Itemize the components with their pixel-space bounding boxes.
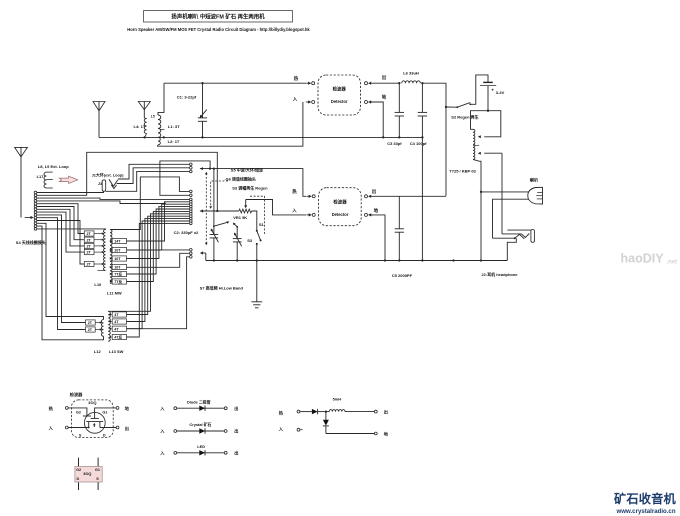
svg-text:7T反: 7T反 <box>114 272 122 277</box>
junction L1L2-bus1 <box>163 136 165 138</box>
svg-text:J2:耳机 headphone: J2:耳机 headphone <box>481 271 518 277</box>
legend 5mH gnd wire <box>326 433 374 435</box>
arrow into detector2 out <box>371 195 373 197</box>
wire VR1 to S1 contact <box>252 211 257 231</box>
wire battery to node <box>487 86 489 111</box>
legend 5mH node <box>325 410 327 412</box>
legend 5mH out terminal <box>374 410 377 413</box>
L1 mid tick <box>160 129 164 131</box>
junction C3 bottom <box>398 136 400 138</box>
staircase tap wires to selector <box>127 202 190 241</box>
wire S4-5 to L10 tap1 <box>37 204 84 234</box>
terminal group ext-loop select <box>190 163 193 166</box>
svg-text:出: 出 <box>234 428 238 435</box>
svg-text:4T: 4T <box>114 320 119 324</box>
coil L2 1T <box>158 137 160 144</box>
wire L2 to detector1 In <box>157 102 303 146</box>
svg-text:G1: G1 <box>95 468 100 472</box>
svg-text:Detector: Detector <box>331 99 348 104</box>
coil L1 3T <box>158 115 161 137</box>
hot bus to detector1 <box>164 82 306 84</box>
junction bus2 varcap1 <box>213 259 215 261</box>
svg-text:S: S <box>79 434 82 438</box>
dashed gang link B <box>211 181 228 207</box>
svg-text:Diode 二极管: Diode 二极管 <box>187 399 211 404</box>
legend mosfet terminal LB <box>65 426 68 429</box>
svg-text:出: 出 <box>234 449 238 456</box>
battery B1 3-4V <box>483 81 493 83</box>
svg-text:矿石收音机: 矿石收音机 <box>614 491 677 506</box>
svg-text:4T: 4T <box>114 313 119 317</box>
svg-text:LED: LED <box>197 444 205 449</box>
terminal group SW select <box>190 249 193 252</box>
capacitor C5 2000PF <box>398 196 400 229</box>
svg-text:地: 地 <box>382 94 387 101</box>
wire select m1 <box>110 177 189 230</box>
terminal block S4 <box>34 191 37 194</box>
wire to S2 <box>446 106 457 108</box>
svg-text:S: S <box>96 477 99 481</box>
svg-text:C2: 330pF x2: C2: 330pF x2 <box>174 230 199 235</box>
horn speaker <box>528 187 543 204</box>
detector2 box <box>319 188 362 226</box>
arrow from ANT1 into S4 terminals <box>25 217 31 219</box>
svg-text:-S6 调谐线圈抽头: -S6 调谐线圈抽头 <box>225 175 256 181</box>
varcap C2b <box>236 227 238 239</box>
legend mosfet dashed box <box>72 400 114 438</box>
svg-text:3OQ: 3OQ <box>83 471 91 476</box>
Q1 source wire <box>68 427 89 429</box>
svg-text:S3 调幅再生 Regen: S3 调幅再生 Regen <box>232 185 268 191</box>
coil L12 <box>101 320 103 337</box>
wire S4-1 to J1 sleeve <box>37 191 104 192</box>
bus2 left riser and arrow <box>205 253 207 261</box>
svg-text:入: 入 <box>292 97 298 103</box>
L12 tap boxes 2T <box>86 320 96 325</box>
svg-text:入: 入 <box>159 450 165 455</box>
svg-text:.net: .net <box>667 260 678 266</box>
package pinout pins top <box>78 458 80 467</box>
pink block arrow <box>59 176 78 183</box>
svg-text:L6 33uH: L6 33uH <box>403 70 419 75</box>
svg-text:地: 地 <box>374 207 379 214</box>
wire S4-9 to L12 tap1 <box>37 215 86 323</box>
junction winding bottom bus2 <box>480 259 482 261</box>
ground bus1 <box>99 136 422 138</box>
svg-text:D: D <box>77 477 80 481</box>
junction bus2 S3 <box>256 259 258 261</box>
transistor Q1 circle <box>84 412 105 433</box>
junction L6 right <box>421 82 423 84</box>
jack J2 sleeve line <box>507 229 531 231</box>
arrow into detector1 hot <box>306 82 308 84</box>
svg-text:2T: 2T <box>88 328 93 332</box>
wire detector2 gnd to bus2 <box>371 215 386 261</box>
package pinout box 3OQ <box>75 467 102 483</box>
svg-text:+: + <box>491 87 494 92</box>
legend mosfet terminal LT <box>65 407 68 410</box>
wire S4-7 to L10 tap3 <box>37 209 84 246</box>
svg-text:haoDIY: haoDIY <box>621 252 665 266</box>
svg-text:出: 出 <box>382 74 387 81</box>
L1 top wire to hot bus <box>158 83 164 115</box>
switch S3 bottom contact <box>256 243 258 245</box>
capacitor C4 100pf <box>421 83 423 112</box>
svg-text:热: 热 <box>292 188 297 195</box>
coil L11 <box>110 230 112 284</box>
wire to speaker bottom <box>493 199 529 238</box>
svg-text:喇叭: 喇叭 <box>530 176 539 183</box>
svg-text:3-4V: 3-4V <box>496 90 505 95</box>
svg-text:3OQ: 3OQ <box>88 400 96 405</box>
wire transformer tap2 down to jack <box>501 153 503 234</box>
svg-text:S4 天线线圈接头: S4 天线线圈接头 <box>16 239 46 245</box>
terminal detector1 gnd <box>365 101 368 104</box>
svg-text:D: D <box>103 434 106 438</box>
svg-text:S2 Regen 再生: S2 Regen 再生 <box>451 114 478 120</box>
Q1 G1 feed <box>95 408 117 419</box>
svg-text:地: 地 <box>125 405 130 412</box>
svg-text:G2: G2 <box>76 410 81 414</box>
junction L4-bus1 <box>143 136 145 138</box>
svg-text:L10: L10 <box>94 282 102 287</box>
legend 5mH shunt diode <box>325 412 327 420</box>
wire to speaker top <box>481 191 529 193</box>
junction bus2 varcap2 <box>236 259 238 261</box>
Q1 substrate arrow <box>93 425 95 427</box>
svg-text:热: 热 <box>279 410 284 417</box>
terminal group coil-tap select <box>190 190 193 193</box>
svg-text:出: 出 <box>125 425 129 432</box>
package pinout pins bottom <box>78 482 80 490</box>
wire S4-4 join <box>37 201 165 204</box>
jack J1 wire B to loop terminal <box>117 168 190 184</box>
svg-text:扬声机喇叭 中短波FM 矿石 再生两用机: 扬声机喇叭 中短波FM 矿石 再生两用机 <box>171 13 265 21</box>
S5 common wire to detector2 hot <box>200 169 306 197</box>
VR1 wiper arrow <box>245 200 247 207</box>
ground bus2 <box>206 260 508 262</box>
svg-text:L5: L5 <box>151 114 155 118</box>
svg-text:2T: 2T <box>87 245 92 249</box>
svg-text:L8, L9 Ext. Loop: L8, L9 Ext. Loop <box>38 164 69 169</box>
legend 5mH hot terminal <box>297 410 300 413</box>
arrow into transformer tap1 <box>478 135 481 138</box>
legend 5mH gnd terminal <box>374 432 377 435</box>
junction C4 bottom <box>421 136 423 138</box>
jack J2 tip contact <box>502 233 522 235</box>
transformer T725 winding <box>473 129 475 159</box>
L11 tap boxes <box>112 238 126 243</box>
jack J2 ring contact with leaf <box>493 237 515 239</box>
wire select b1 from L11 10T <box>127 249 190 251</box>
junction gnd1-bus1 <box>382 136 384 138</box>
legend 5mH series diode <box>300 411 312 413</box>
svg-text:Crystal 矿石: Crystal 矿石 <box>189 422 211 427</box>
wire S3 to ground <box>256 261 258 302</box>
wire select m3 from S4 <box>37 198 189 199</box>
wire S4-12 to L12 top <box>37 223 104 319</box>
junction bus2 C4ext <box>421 259 423 261</box>
svg-text:热: 热 <box>294 75 299 82</box>
svg-text:检波器: 检波器 <box>333 86 347 93</box>
svg-text:7T反: 7T反 <box>114 279 122 284</box>
svg-text:出: 出 <box>372 188 377 195</box>
switch S7 blade a <box>213 225 215 227</box>
junction C1 top <box>201 82 203 84</box>
dashed link S1 <box>250 196 265 234</box>
svg-text:C4 100pf: C4 100pf <box>410 141 427 146</box>
svg-text:VR1 5K: VR1 5K <box>233 215 247 220</box>
svg-text:S5 中波/大环/短波: S5 中波/大环/短波 <box>231 167 264 173</box>
arrow into detector1 out <box>371 82 373 84</box>
svg-text:L2: 1T: L2: 1T <box>168 139 180 144</box>
svg-text:G2: G2 <box>76 468 81 472</box>
wire detector2 out to right branch <box>373 195 446 197</box>
ground symbol <box>251 301 262 303</box>
coil L13 <box>108 311 110 341</box>
svg-text:10T: 10T <box>114 266 121 270</box>
wire winding bottom down <box>473 159 481 260</box>
junction S2 branch <box>445 106 447 108</box>
svg-text:2T: 2T <box>87 263 92 267</box>
terminal detector2 out <box>365 195 368 198</box>
arrow into detector2 gnd <box>371 214 373 216</box>
coil L4 1T <box>144 119 146 134</box>
wire select b3 from L13 <box>127 257 190 329</box>
dashed gang link A <box>205 173 207 243</box>
svg-text:L17: L17 <box>37 174 45 179</box>
terminal detector1 out <box>365 82 368 85</box>
svg-text:L1: 3T: L1: 3T <box>168 124 180 129</box>
wire battery node left to primary <box>471 111 489 130</box>
jack J2 lower step <box>507 238 516 260</box>
legend mosfet terminal RB <box>116 426 119 429</box>
Q1 channel <box>86 421 103 423</box>
junction bus2 gnd2 <box>384 259 386 261</box>
svg-text:4T反: 4T反 <box>114 335 122 340</box>
terminal detector1 hot <box>312 82 315 85</box>
wire detector1 out to L6 <box>373 82 399 84</box>
jack J1 sleeve body <box>102 180 106 191</box>
jack J1 wire A to loop terminal <box>118 164 190 179</box>
svg-text:2T: 2T <box>87 232 92 236</box>
wire wiper to detector2 in <box>246 200 307 215</box>
svg-text:www.crystalradio.cn: www.crystalradio.cn <box>616 508 676 515</box>
varcap C2a feed <box>213 169 215 227</box>
terminal detector2 in <box>312 213 315 216</box>
wire C4 node down to bus2 <box>421 137 423 260</box>
wire select b2 from L11 10T <box>127 253 190 267</box>
svg-text:C3 33pf: C3 33pf <box>387 141 402 146</box>
svg-text:5mH: 5mH <box>333 397 342 402</box>
Q1 source leg <box>88 422 90 428</box>
junction outer rect VR1 line <box>216 210 218 212</box>
switch S2 blade <box>457 103 470 108</box>
svg-text:出: 出 <box>234 405 238 412</box>
jack J1 tip contact <box>109 179 118 186</box>
antenna ANT2 <box>93 102 105 111</box>
svg-text:检波器: 检波器 <box>70 391 83 398</box>
svg-text:2T: 2T <box>88 321 93 325</box>
jack J1 leaf <box>111 185 116 189</box>
jack J1 wire C to loop terminal <box>106 171 190 191</box>
svg-text:T725 / KBP-02: T725 / KBP-02 <box>449 168 476 173</box>
capacitor C3 33pf <box>398 83 400 112</box>
wire S4-6 to L10 tap2 <box>37 207 84 240</box>
wire detector1 gnd down <box>371 102 384 137</box>
L10 tap boxes 2T <box>84 231 94 236</box>
junction L6 left <box>398 82 400 84</box>
wire S2 to battery <box>470 75 488 104</box>
wire battery node to secondary tap1 <box>484 111 501 137</box>
switch S3 blade <box>256 230 258 232</box>
svg-text:2T: 2T <box>87 251 92 255</box>
wire S4-14 to L10 top <box>37 228 106 231</box>
wire S4-8 to L10 tap4 <box>37 212 84 252</box>
legend mosfet terminal RT <box>116 407 119 410</box>
inductor 5mH <box>329 410 345 412</box>
svg-text:G1: G1 <box>102 410 107 414</box>
arrow into detector1 gnd <box>371 101 373 103</box>
terminal detector2 gnd <box>365 213 368 216</box>
svg-text:S7 高低频 Hi.Low Band: S7 高低频 Hi.Low Band <box>200 284 244 290</box>
svg-text:Detector: Detector <box>332 212 349 217</box>
svg-text:Horn Speaker AM/SW/FM MOS FET: Horn Speaker AM/SW/FM MOS FET Crystal Ra… <box>127 27 310 32</box>
VR1 line from tap arrow <box>203 210 205 212</box>
svg-text:C5 2000PF: C5 2000PF <box>392 273 413 278</box>
svg-text:C1: 3-22pf: C1: 3-22pf <box>177 94 197 99</box>
svg-text:入: 入 <box>278 426 284 431</box>
arrow into detector2 in <box>307 214 309 216</box>
svg-text:地: 地 <box>384 430 389 437</box>
jack J2 sleeve body <box>531 230 535 243</box>
switch S7 blade b <box>234 224 237 227</box>
L10 bottom tick <box>98 270 106 272</box>
inner selection rectangle <box>160 161 210 195</box>
svg-text:L13 SW: L13 SW <box>109 349 124 354</box>
coil L17 <box>44 172 46 188</box>
potentiometer VR1 5K <box>239 209 252 213</box>
Q1 G2 feed <box>68 408 87 416</box>
svg-text:入: 入 <box>159 429 165 434</box>
svg-text:10T: 10T <box>114 257 121 261</box>
svg-text:L12: L12 <box>94 349 102 354</box>
L13 tap boxes <box>112 312 126 317</box>
junction battery node <box>487 110 489 112</box>
svg-text:入: 入 <box>291 208 297 214</box>
wire secondary tap2 <box>484 152 502 154</box>
junction S5 varcap feed <box>213 167 215 169</box>
coil L10 <box>104 230 106 271</box>
legend 5mH in terminal <box>297 428 300 431</box>
svg-text:L11 MW: L11 MW <box>107 290 122 295</box>
detector1 box <box>318 75 361 115</box>
svg-text:S1: S1 <box>259 222 265 227</box>
svg-text:14T: 14T <box>114 240 121 244</box>
svg-text:热: 热 <box>49 405 54 412</box>
junction speaker tap <box>480 191 482 193</box>
junction bus2 stray <box>452 259 454 261</box>
wire S4-10 to L12 tap2 <box>37 218 86 330</box>
arrow into detector2 hot <box>307 195 309 197</box>
svg-text:J1大环(ext. Loop): J1大环(ext. Loop) <box>92 173 125 178</box>
inductor L6 33uH <box>402 81 421 83</box>
svg-text:10T: 10T <box>114 249 121 253</box>
Q1 drain wire <box>100 427 116 429</box>
outer selection rectangle <box>37 152 217 211</box>
svg-text:检波器: 检波器 <box>333 198 347 205</box>
svg-text:出: 出 <box>384 408 388 415</box>
antenna ANT1 <box>15 147 28 157</box>
svg-text:入: 入 <box>48 425 54 430</box>
varcap C2a <box>213 226 215 234</box>
svg-text:L4: 1T: L4: 1T <box>134 124 146 129</box>
junction bus2 C5 <box>398 259 400 261</box>
svg-text:入: 入 <box>159 406 165 411</box>
Q1 drain leg <box>99 422 101 428</box>
transformer center tap tick <box>473 144 479 146</box>
terminal detector2 hot <box>312 195 315 198</box>
wire L6 to right branch <box>422 83 446 196</box>
junction S5 inner rect <box>209 167 211 169</box>
junction C1 bottom <box>201 136 203 138</box>
capacitor C1 3-22pf variable <box>202 83 204 118</box>
wire S4-13 to L12 bottom <box>37 226 104 340</box>
antenna ANT3 <box>138 102 150 110</box>
wire S4-11 to L10 tap5 <box>37 221 84 265</box>
svg-text:4T: 4T <box>114 327 119 331</box>
svg-text:2T: 2T <box>87 238 92 242</box>
svg-text:S3: S3 <box>247 238 253 243</box>
terminal detector1 in <box>312 101 315 104</box>
title box <box>144 11 293 22</box>
